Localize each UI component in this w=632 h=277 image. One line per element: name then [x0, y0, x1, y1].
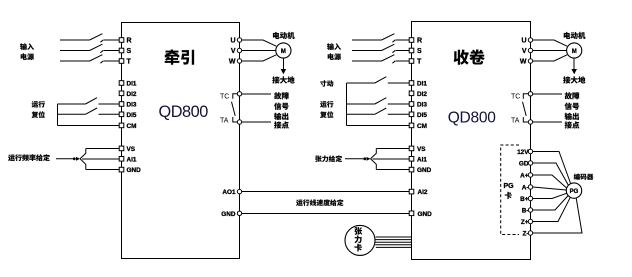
svg-text:TA: TA	[220, 117, 229, 124]
label PG card	[504, 183, 515, 199]
ground earth symbol (M2)	[563, 58, 585, 83]
wire RP2 wiper to AI1 (U2)	[373, 158, 410, 160]
switch reset (U2 DI5)	[347, 108, 410, 114]
terminal 12V (U2 PG card)	[517, 149, 533, 156]
wire RP1 bottom to GND (U1)	[86, 169, 119, 171]
label U2 title ShouJuan	[454, 49, 485, 64]
switch S1 phase T wire (U1)	[60, 55, 119, 64]
label U1 title QianYin	[165, 50, 194, 65]
svg-text:DI1: DI1	[417, 81, 427, 88]
label run (U2 DI3)	[320, 101, 333, 108]
switch S1 phase R wire (U1)	[60, 34, 119, 43]
svg-text:GND: GND	[417, 167, 432, 174]
wire RP1 top to VS (U1)	[86, 147, 119, 149]
wire DI common bus (U1)	[56, 104, 58, 125]
svg-text:TA: TA	[511, 117, 520, 124]
motor M1	[273, 32, 295, 58]
label reset (U2 DI5)	[320, 111, 333, 118]
svg-text:TC: TC	[511, 94, 520, 101]
switch S2 phase T wire (U2)	[352, 55, 410, 64]
svg-text:Z-: Z-	[522, 230, 528, 237]
terminal V (U1)	[231, 48, 242, 55]
svg-text:AI1: AI1	[417, 156, 427, 163]
wire V to motor M2	[533, 50, 567, 52]
svg-text:DI3: DI3	[417, 102, 427, 109]
wire W to motor M1	[242, 55, 276, 61]
svg-text:GND: GND	[418, 211, 433, 218]
wire CM common (U2)	[347, 124, 410, 126]
label fault signal output contact (U1)	[274, 92, 289, 128]
svg-text:QD800: QD800	[159, 103, 209, 121]
wire W to motor M2	[533, 55, 567, 61]
terminal GND in (U2)	[409, 211, 432, 218]
inverter U2 box (winding drive)	[412, 22, 531, 260]
wire 12V to encoder PG1	[533, 152, 571, 185]
svg-text:A+: A+	[520, 172, 529, 179]
svg-text:PG: PG	[504, 183, 515, 190]
terminal GND (U1)	[119, 167, 141, 174]
terminal AI1 (U1)	[119, 156, 137, 163]
svg-text:DI3: DI3	[127, 102, 137, 109]
svg-text:S: S	[127, 48, 132, 55]
svg-text:V: V	[522, 48, 527, 55]
terminal U (U1)	[230, 38, 241, 45]
terminal DI3 (U1)	[119, 102, 137, 109]
wire GND to GND	[242, 212, 410, 214]
terminal U (U2)	[521, 38, 532, 45]
wire AO1 to AI2	[242, 191, 410, 193]
svg-text:QD800: QD800	[448, 110, 496, 127]
switch S2 phase R wire (U2)	[352, 34, 410, 43]
wire RP2 bottom to GND (U2)	[376, 169, 409, 171]
switch run (U1 DI3)	[57, 98, 119, 104]
wire V to motor M1	[242, 50, 276, 52]
terminal GND (U2)	[409, 167, 431, 174]
wire TC to fault label (U1)	[242, 93, 271, 95]
terminal CM (U2)	[409, 123, 427, 130]
svg-text:TC: TC	[220, 94, 229, 101]
terminal A- (U2 PG card)	[522, 184, 533, 191]
svg-text:VS: VS	[417, 146, 426, 153]
switch jog (U2 DI1)	[347, 77, 410, 83]
terminal W (U2)	[520, 59, 533, 66]
svg-text:U: U	[521, 38, 526, 45]
svg-text:B+: B+	[520, 196, 529, 203]
svg-text:GND: GND	[127, 167, 142, 174]
svg-text:A-: A-	[522, 184, 529, 191]
terminal DI1 (U1)	[119, 81, 137, 88]
potentiometer RP1	[56, 158, 73, 160]
label input power (U2)	[327, 43, 341, 60]
PG card dashed outline (U2)	[501, 145, 519, 235]
svg-text:AI2: AI2	[418, 189, 428, 196]
terminal VS (U1)	[119, 146, 136, 153]
terminal DI5 (U2)	[409, 112, 427, 119]
switch reset (U1 DI5)	[57, 108, 119, 114]
svg-text:W: W	[229, 59, 236, 66]
terminal TA (U2)	[528, 120, 532, 124]
tension card A1	[345, 225, 375, 255]
svg-text:U: U	[230, 38, 235, 45]
terminal AO1 (U1)	[222, 189, 241, 196]
wire RP2 top to VS (U2)	[376, 147, 409, 149]
terminal R (U1)	[119, 38, 131, 45]
terminal AI1 (U2)	[409, 156, 427, 163]
svg-text:VS: VS	[127, 146, 136, 153]
terminal W (U1)	[229, 59, 242, 66]
svg-text:AO1: AO1	[222, 189, 236, 196]
wire TA to fault label (U1)	[242, 121, 271, 123]
terminal DI1 (U2)	[409, 81, 427, 88]
terminal TA (U1)	[237, 120, 241, 124]
terminal Z+ (U2 PG card)	[521, 219, 533, 226]
wire B+ to encoder PG1	[533, 193, 567, 198]
svg-text:DI5: DI5	[417, 112, 427, 119]
svg-text:Z+: Z+	[521, 219, 529, 226]
svg-text:M: M	[281, 49, 286, 55]
wire A- to encoder PG1	[533, 187, 567, 190]
svg-text:V: V	[231, 48, 236, 55]
terminal R (U2)	[409, 38, 422, 45]
svg-text:DI5: DI5	[127, 112, 137, 119]
motor M2	[564, 32, 586, 58]
wire CM common (U1)	[57, 124, 119, 126]
label jog (U2 DI1)	[320, 80, 333, 86]
svg-text:CM: CM	[417, 123, 427, 130]
terminal Z- (U2 PG card)	[522, 230, 532, 237]
terminal T (U2)	[409, 59, 422, 66]
terminal VS (U2)	[409, 146, 426, 153]
inverter U1 box (traction drive)	[122, 23, 240, 259]
ground earth symbol (M1)	[272, 58, 294, 83]
svg-text:T: T	[417, 59, 422, 66]
terminal TC (U2)	[528, 92, 532, 96]
wire Z- to encoder PG1	[533, 198, 582, 233]
label line speed reference net	[296, 199, 343, 206]
encoder PG1	[566, 173, 593, 198]
svg-text:R: R	[127, 38, 132, 45]
wire TA to fault label (U2)	[533, 121, 562, 123]
switch S1 phase S wire (U1)	[60, 44, 119, 53]
svg-text:GD: GD	[519, 160, 529, 167]
terminal A+ (U2 PG card)	[520, 172, 533, 179]
terminal B+ (U2 PG card)	[520, 196, 533, 203]
switch S2 phase S wire (U2)	[352, 44, 410, 53]
svg-text:S: S	[417, 48, 422, 55]
terminal B- (U2 PG card)	[522, 207, 533, 214]
svg-text:PG: PG	[570, 189, 579, 195]
terminal DI2 (U1)	[119, 91, 137, 98]
label tension reference pot (RP2)	[315, 155, 342, 162]
svg-text:DI1: DI1	[127, 81, 137, 88]
relay contact TC/TA (U1)	[220, 94, 240, 125]
terminal DI2 (U2)	[409, 91, 427, 98]
switch run (U2 DI3)	[347, 98, 410, 104]
label fault signal output contact (U2)	[565, 92, 580, 128]
svg-text:DI2: DI2	[417, 91, 427, 98]
wire DI common bus (U2)	[346, 83, 348, 125]
terminal V (U2)	[522, 48, 533, 55]
ribbon cable A1 to U2	[375, 237, 412, 247]
svg-text:12V: 12V	[517, 149, 529, 156]
label frequency reference pot (RP1)	[8, 154, 50, 161]
svg-text:R: R	[417, 38, 422, 45]
wire TC to fault label (U2)	[533, 93, 562, 95]
svg-text:AI1: AI1	[127, 156, 137, 163]
terminal DI3 (U2)	[409, 102, 427, 109]
svg-text:DI2: DI2	[127, 91, 137, 98]
wire U to motor M2	[533, 40, 567, 46]
wire B- to encoder PG1	[533, 196, 569, 211]
terminal DI5 (U1)	[119, 112, 137, 119]
terminal CM (U1)	[119, 123, 136, 130]
potentiometer RP2	[345, 158, 364, 160]
svg-text:GND: GND	[221, 211, 236, 218]
terminal GD (U2 PG card)	[519, 160, 533, 167]
wire U to motor M1	[242, 40, 276, 46]
wire RP1 wiper to AI1 (U1)	[82, 158, 119, 160]
relay contact TC/TA (U2)	[511, 94, 531, 125]
svg-text:W: W	[520, 59, 527, 66]
label reset (U1 DI5)	[32, 111, 45, 118]
wire A+ to encoder PG1	[533, 175, 567, 188]
svg-text:B-: B-	[522, 207, 529, 214]
terminal TC (U1)	[237, 92, 241, 96]
terminal S (U1)	[119, 48, 131, 55]
label input power (U1)	[20, 43, 34, 60]
terminal T (U1)	[119, 59, 131, 66]
terminal AI2 (U2)	[409, 189, 428, 196]
svg-text:CM: CM	[127, 123, 137, 130]
svg-text:T: T	[127, 59, 132, 66]
wire Z+ to encoder PG1	[533, 197, 571, 221]
wire GD to encoder PG1	[533, 163, 569, 186]
terminal GND out (U1)	[221, 211, 241, 218]
svg-text:M: M	[572, 49, 577, 55]
label run (U1 DI3)	[32, 101, 45, 108]
terminal S (U2)	[409, 48, 422, 55]
